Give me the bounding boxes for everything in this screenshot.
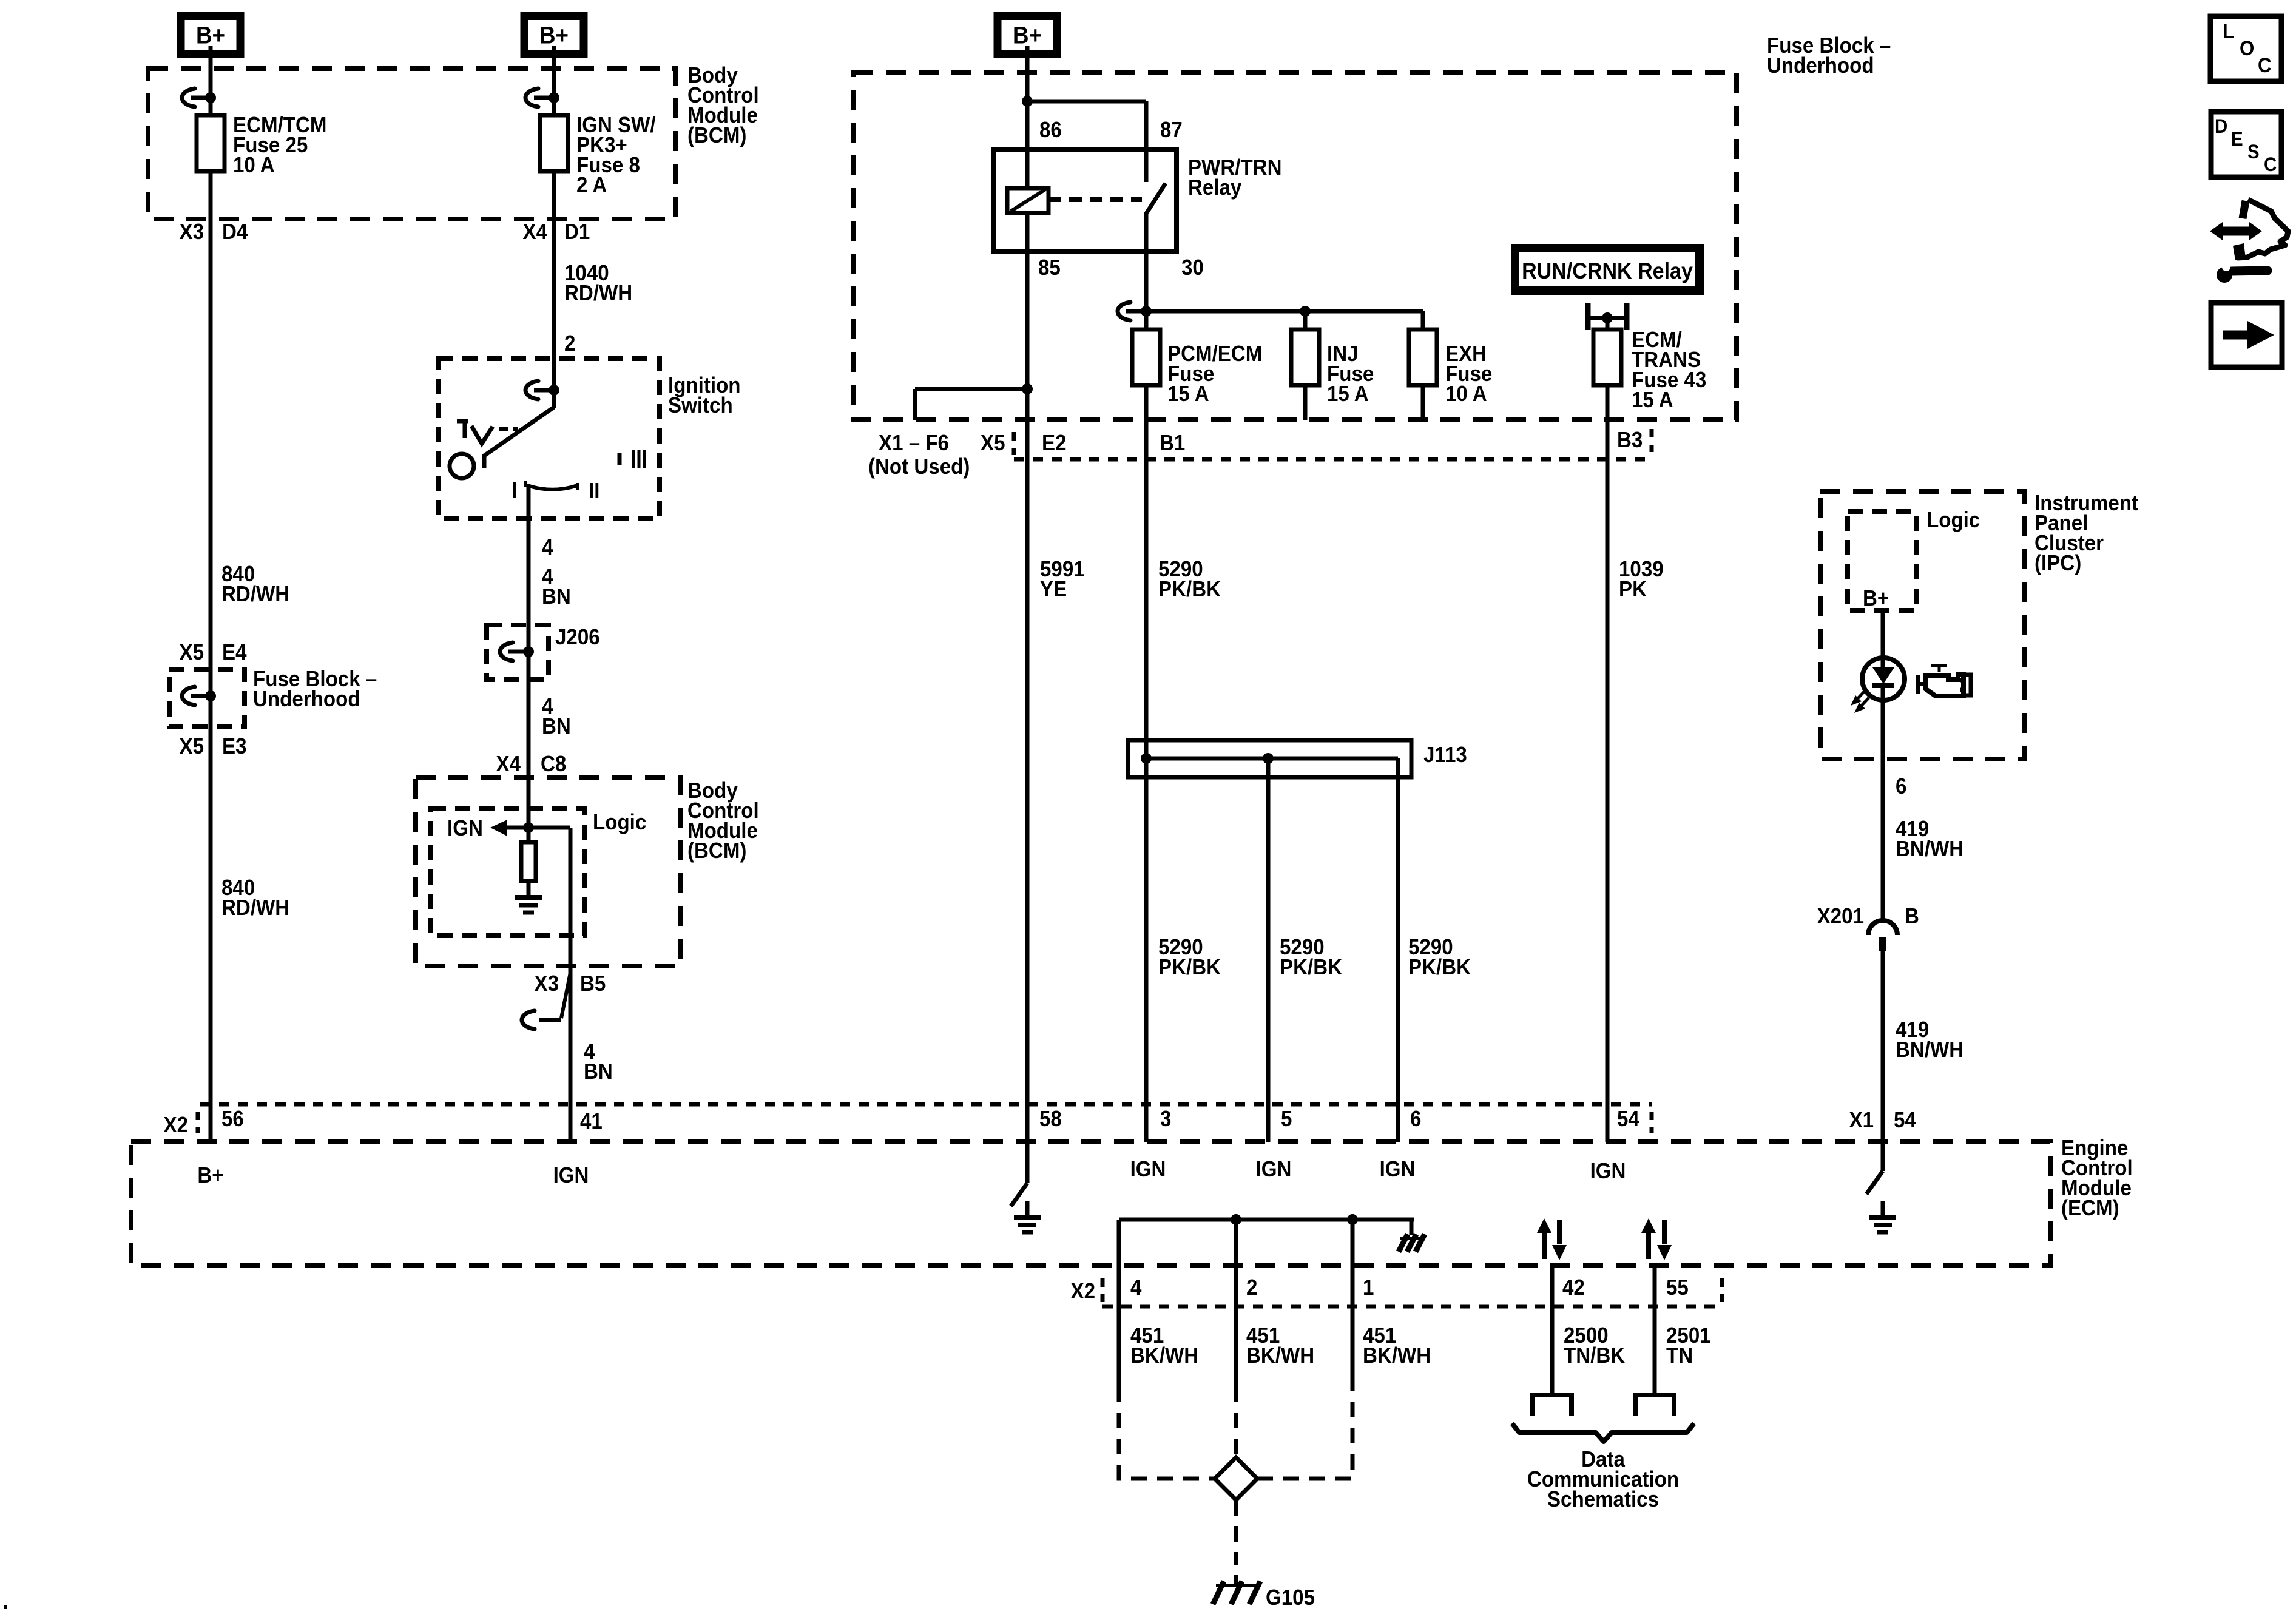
svg-text:C: C: [2264, 154, 2277, 175]
svg-text:3: 3: [1160, 1107, 1171, 1132]
pin labels X5 E4: [180, 641, 248, 665]
svg-text:G105: G105: [1266, 1586, 1315, 1610]
ECM connector row X2/X1 (top fine dashed line): [164, 1104, 1652, 1137]
wire 5290 PK/BK feed: [1146, 385, 1221, 1142]
svg-text:C: C: [2258, 53, 2272, 77]
svg-text:B: B: [1905, 905, 1919, 929]
icon LOC: [2210, 16, 2281, 81]
svg-text:87: 87: [1160, 118, 1183, 143]
svg-text:E4: E4: [222, 641, 247, 665]
chassis ground symbol at bus end: [1399, 1234, 1425, 1252]
svg-text:X5: X5: [981, 431, 1005, 456]
svg-text:RD/WH: RD/WH: [221, 896, 289, 920]
svg-text:2 A: 2 A: [576, 174, 607, 198]
wire 4 BN (middle): [528, 680, 571, 828]
splice pack J113: [1128, 740, 1467, 777]
pin labels X4 D1: [523, 220, 590, 245]
relay pin 85 30 labels: [1038, 256, 1204, 280]
svg-text:X201: X201: [1817, 905, 1864, 929]
svg-text:Logic: Logic: [1926, 508, 1980, 533]
BCM pull-down resistor: [521, 828, 536, 881]
off-page bracket pin 55: [1635, 1395, 1674, 1416]
wire 5290 PK/BK branch 2: [1268, 758, 1342, 1142]
wire 2500 TN/BK: [1552, 1266, 1625, 1393]
IGN labels under ECM pins: [1130, 1158, 1416, 1182]
ECM internal ground bus: [1119, 1214, 1414, 1235]
svg-text:Switch: Switch: [668, 394, 733, 418]
svg-text:BN/WH: BN/WH: [1896, 1038, 1963, 1062]
svg-text:X5: X5: [180, 641, 204, 665]
svg-text:(BCM): (BCM): [687, 124, 746, 148]
wire 5290 PK/BK branch 3: [1398, 758, 1471, 1142]
svg-text:BN: BN: [542, 715, 571, 739]
svg-text:B+: B+: [1013, 22, 1042, 49]
svg-text:Logic: Logic: [593, 811, 646, 835]
engine icon (MIL): [1918, 666, 1971, 696]
svg-text:E2: E2: [1042, 431, 1066, 456]
svg-text:6: 6: [1410, 1107, 1421, 1132]
svg-text:B1: B1: [1160, 431, 1185, 456]
IPC Logic inner box: [1848, 508, 1980, 610]
svg-text:X4: X4: [523, 220, 548, 245]
PWR/TRN Relay box: [994, 150, 1281, 252]
ECM internal ground (right): [1869, 1201, 1896, 1232]
svg-text:56: 56: [221, 1107, 244, 1132]
in-line connector X201 pin B: [1817, 905, 1919, 951]
connector clip at ignition switch: [525, 381, 559, 399]
svg-text:IGN: IGN: [1130, 1158, 1166, 1182]
svg-text:10 A: 10 A: [1445, 382, 1487, 407]
svg-text:TN: TN: [1666, 1344, 1693, 1368]
svg-text:2: 2: [564, 332, 575, 356]
wire X2 pin 2: [1236, 1220, 1314, 1386]
ignition switch output wire pin 4: [528, 487, 553, 625]
Body Control Module (BCM) lower box: [416, 777, 759, 966]
svg-text:4: 4: [542, 536, 553, 560]
power terminal B+ (ECM/TCM fuse feed): [181, 16, 240, 54]
svg-text:X3: X3: [535, 972, 559, 996]
svg-text:RD/WH: RD/WH: [564, 282, 632, 306]
wire through X5 connector: [209, 669, 213, 727]
relay coil: [1007, 150, 1048, 252]
wire 840 RD/WH upper segment: [211, 171, 289, 669]
ECM internal switch to ground (pin 58): [1011, 1142, 1027, 1206]
splice pack J206 box: [487, 625, 600, 680]
fuse PCM/ECM Fuse 15A: [1132, 329, 1262, 406]
svg-text:E3: E3: [222, 735, 246, 759]
wire 419 BN/WH lower: [1883, 951, 1963, 1142]
connector clip at fuse 8: [525, 89, 559, 107]
svg-text:X1 – F6: X1 – F6: [879, 431, 949, 456]
svg-text:Schematics: Schematics: [1547, 1488, 1659, 1512]
RUN/CRNK relay output bracket: [1588, 303, 1627, 330]
svg-text:15 A: 15 A: [1167, 382, 1209, 407]
svg-text:PK/BK: PK/BK: [1408, 956, 1471, 980]
svg-text:30: 30: [1181, 256, 1204, 280]
fuse INJ Fuse 15A: [1291, 311, 1374, 420]
wire relay 85 down to E2: [1022, 252, 1033, 420]
ignition position mark III: [620, 450, 644, 468]
wire X2 pin 1: [1352, 1220, 1431, 1386]
svg-text:S: S: [2247, 141, 2260, 163]
svg-text:II: II: [589, 479, 599, 504]
icon forward arrow: [2211, 303, 2282, 367]
fuse block connector row X5 (fine dashed line): [1014, 429, 1652, 459]
fuse EXH Fuse 10A: [1409, 329, 1492, 420]
connector clip X5: [182, 687, 216, 705]
BCM Logic inner box: [431, 808, 646, 936]
svg-text:54: 54: [1894, 1109, 1917, 1133]
svg-text:Relay: Relay: [1188, 176, 1242, 200]
chassis ground G105: [1213, 1575, 1315, 1610]
svg-text:42: 42: [1562, 1276, 1585, 1300]
Instrument Panel Cluster (IPC) box: [1820, 491, 2139, 759]
svg-text:Underhood: Underhood: [253, 687, 360, 712]
wire 1040 RD/WH: [554, 171, 632, 408]
power terminal B+ (IGN SW fuse feed): [524, 16, 584, 54]
svg-text:L: L: [2223, 19, 2234, 43]
connector clip on fuse bus: [1118, 302, 1146, 320]
pin labels X4 C8: [496, 752, 567, 777]
svg-text:B3: B3: [1617, 428, 1643, 453]
fuse ECM/TRANS Fuse 43 15A: [1593, 318, 1706, 412]
svg-text:PK: PK: [1619, 578, 1647, 602]
X1-F6 not used stub: [868, 389, 1027, 479]
svg-text:B+: B+: [196, 22, 225, 49]
IPC wire from logic to LED: [1881, 610, 1885, 658]
off-page bracket pin 42: [1533, 1395, 1572, 1416]
svg-text:10 A: 10 A: [233, 154, 275, 178]
power terminal B+ (underhood fuse block feed): [998, 16, 1057, 54]
svg-text:PK/BK: PK/BK: [1158, 956, 1221, 980]
svg-text:5: 5: [1281, 1107, 1292, 1132]
ground splice diamond: [1215, 1457, 1257, 1500]
svg-text:IGN: IGN: [553, 1164, 589, 1188]
svg-text:(Not Used): (Not Used): [868, 455, 970, 479]
svg-text:D: D: [2215, 115, 2227, 137]
pin labels X3 D4: [180, 220, 249, 245]
wire through J206: [527, 625, 531, 680]
wire 2501 TN: [1655, 1266, 1711, 1393]
breakout connector clip at B5: [522, 973, 570, 1029]
svg-text:86: 86: [1039, 118, 1062, 143]
svg-text:C8: C8: [541, 752, 566, 777]
ECM internal switch to ground (pin 54): [1866, 1142, 1883, 1194]
svg-text:85: 85: [1038, 256, 1061, 280]
svg-text:B+: B+: [1863, 587, 1889, 611]
svg-text:IGN: IGN: [1380, 1158, 1416, 1182]
page artifact dot: [4, 1605, 7, 1609]
Body Control Module (BCM) upper box: [148, 64, 759, 219]
fuse block pin labels X5 E2 B1 B3: [981, 428, 1643, 456]
svg-text:J113: J113: [1423, 743, 1467, 768]
Data Communication Schematics label: [1527, 1448, 1679, 1512]
svg-text:54: 54: [1617, 1107, 1640, 1132]
ignition switch blade: [484, 407, 554, 468]
svg-text:IGN: IGN: [447, 817, 483, 841]
svg-text:BK/WH: BK/WH: [1363, 1344, 1431, 1368]
svg-text:BN: BN: [542, 585, 571, 609]
pin labels X5 E3: [180, 735, 247, 759]
fuse feed bus: [1146, 306, 1423, 329]
svg-text:BK/WH: BK/WH: [1130, 1344, 1198, 1368]
svg-text:X4: X4: [496, 752, 521, 777]
svg-text:B+: B+: [197, 1164, 223, 1188]
ECM connector row X2 (bottom fine dashed line): [1071, 1278, 1723, 1306]
Engine Control Module (ECM) box: [131, 1136, 2133, 1266]
serial data arrows pin 42: [1537, 1218, 1567, 1260]
svg-text:X5: X5: [180, 735, 204, 759]
svg-text:Underhood: Underhood: [1767, 54, 1874, 78]
ignition switch rotor circle: [450, 454, 474, 478]
svg-text:4: 4: [1130, 1276, 1142, 1300]
RUN/CRNK Relay box: [1515, 248, 1700, 291]
IPC output wire pin 6: [1883, 700, 1906, 919]
svg-text:BN/WH: BN/WH: [1896, 837, 1963, 862]
svg-text:J206: J206: [555, 626, 600, 650]
svg-text:D4: D4: [222, 220, 248, 245]
svg-text:1: 1: [1363, 1276, 1374, 1300]
wire relay 30 to fuse bus: [1141, 252, 1152, 329]
wire 1039 PK: [1607, 385, 1664, 1142]
wire B+ to ECM/TCM fuse: [209, 46, 213, 115]
fuse IGN SW/PK3+ Fuse 8 2A: [540, 113, 656, 198]
relay pin 86 87 labels: [1039, 118, 1183, 143]
LED emission arrows: [1851, 690, 1869, 713]
svg-text:(IPC): (IPC): [2034, 552, 2081, 576]
svg-text:6: 6: [1896, 775, 1906, 799]
svg-text:YE: YE: [1040, 578, 1067, 602]
wire 5991 YE: [1027, 420, 1085, 1142]
svg-text:B5: B5: [580, 972, 606, 996]
icon DESC: [2211, 112, 2281, 177]
ground splice dashed box: [1119, 1386, 1352, 1565]
svg-text:PK/BK: PK/BK: [1158, 578, 1221, 602]
svg-text:I: I: [512, 479, 517, 503]
svg-text:E: E: [2231, 128, 2243, 150]
svg-text:RUN/CRNK Relay: RUN/CRNK Relay: [1522, 258, 1693, 284]
svg-text:15 A: 15 A: [1632, 388, 1673, 413]
ignition key glyph: [457, 421, 518, 444]
wire B+ to IGN SW fuse: [552, 46, 556, 115]
BCM logic output branch: [528, 828, 570, 1142]
pin labels X1 54: [1849, 1109, 1917, 1133]
svg-text:(BCM): (BCM): [687, 839, 746, 863]
relay actuating dashed link: [1048, 197, 1142, 202]
svg-text:(ECM): (ECM): [2061, 1197, 2119, 1221]
fuse ECM/TCM Fuse 25 10A: [197, 113, 326, 178]
wire X2 pin 4: [1119, 1220, 1198, 1386]
connector clip J206: [500, 643, 534, 661]
svg-text:TN/BK: TN/BK: [1564, 1344, 1625, 1368]
svg-text:X1: X1: [1849, 1109, 1874, 1133]
svg-text:O: O: [2240, 36, 2254, 60]
data communication brace: [1512, 1423, 1694, 1442]
svg-text:55: 55: [1666, 1276, 1689, 1300]
svg-text:IGN: IGN: [1256, 1158, 1292, 1182]
Fuse Block - Underhood box: [853, 34, 1891, 420]
wire 5290 PK/BK branch 1 label: [1158, 936, 1221, 980]
ignition position marks I II and arc: [512, 479, 599, 504]
telltale LED: [1862, 658, 1905, 700]
svg-text:RD/WH: RD/WH: [221, 582, 289, 607]
relay switch pin 87 stub and blade: [1146, 101, 1166, 252]
svg-text:BN: BN: [584, 1060, 613, 1084]
svg-text:41: 41: [580, 1110, 603, 1134]
svg-text:X3: X3: [180, 220, 204, 245]
svg-text:IGN: IGN: [1590, 1160, 1626, 1184]
svg-text:PK/BK: PK/BK: [1280, 956, 1342, 980]
icon adjust (hand, double arrow, wrench): [2210, 200, 2288, 283]
svg-text:X2: X2: [1071, 1280, 1095, 1304]
svg-text:D1: D1: [564, 220, 590, 245]
wire B+ into fuse block: [1022, 46, 1033, 150]
svg-text:2: 2: [1246, 1276, 1257, 1300]
svg-text:15 A: 15 A: [1327, 382, 1369, 407]
svg-text:X2: X2: [164, 1113, 188, 1138]
BCM IGN input arrow: [447, 817, 534, 841]
svg-text:58: 58: [1039, 1107, 1062, 1132]
BCM logic ground: [515, 881, 542, 913]
jumper to relay pin 87: [1027, 100, 1146, 104]
svg-text:BK/WH: BK/WH: [1246, 1344, 1314, 1368]
ECM internal ground (left): [1014, 1201, 1041, 1232]
connector clip at fuse 25: [182, 89, 216, 107]
connector X5 pass-through box (Fuse Block - Underhood): [169, 667, 377, 727]
wire 840 RD/WH lower segment: [211, 727, 289, 1142]
serial data arrows pin 55: [1641, 1218, 1672, 1260]
pin labels X3 B5: [535, 972, 606, 996]
Ignition Switch box: [438, 359, 741, 519]
svg-text:B+: B+: [539, 22, 569, 49]
